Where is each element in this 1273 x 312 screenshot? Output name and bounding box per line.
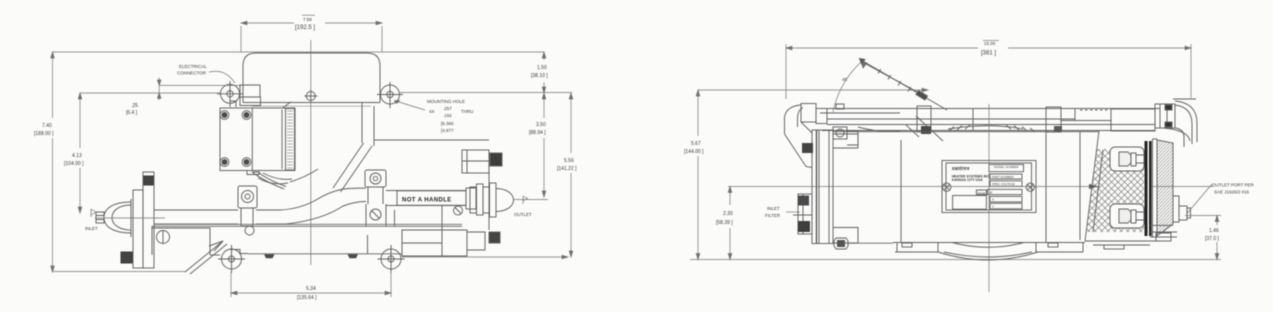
svg-text:.257: .257 — [443, 106, 452, 111]
svg-text:MOUNTING HOLE: MOUNTING HOLE — [427, 99, 465, 104]
tube clamp at handle — [917, 106, 973, 132]
svg-text:FILTER: FILTER — [765, 213, 781, 218]
svg-text:[58.39 ]: [58.39 ] — [716, 220, 733, 226]
diagonal flap — [185, 241, 227, 274]
elbow into bell — [1163, 128, 1190, 141]
clamp 2 — [365, 170, 395, 254]
left cap — [785, 104, 828, 168]
inlet flag — [91, 209, 96, 217]
base bracket — [893, 242, 1085, 260]
dim 1.46 — [1185, 216, 1221, 260]
base right — [1085, 241, 1150, 249]
inlet bolts — [121, 176, 153, 263]
svg-text:[37.0 ]: [37.0 ] — [1205, 236, 1220, 242]
body top curves — [833, 125, 1099, 132]
svg-text:NOT A HANDLE: NOT A HANDLE — [402, 198, 452, 204]
right bottom bracket — [1150, 225, 1177, 241]
dim total width — [786, 44, 1191, 99]
ref line mounting surface — [80, 92, 572, 95]
svg-text:45: 45 — [842, 77, 848, 82]
svg-text:.192: .192 — [443, 113, 452, 118]
lower tube band — [154, 188, 366, 224]
dim 2.30 — [728, 187, 732, 260]
left mount ear — [217, 81, 243, 107]
dim 4.13 — [78, 93, 82, 213]
svg-text:INLET: INLET — [767, 206, 780, 211]
svg-text:2.30: 2.30 — [723, 211, 733, 217]
feet — [218, 245, 405, 273]
svg-text:[4.877: [4.877 — [441, 128, 454, 133]
svg-text:MODEL NUMBER: MODEL NUMBER — [994, 165, 1019, 169]
dim 5.67 — [690, 88, 1221, 259]
sleeve with dashes — [1075, 109, 1155, 132]
angle arc — [833, 62, 867, 112]
inlet centerline — [95, 217, 165, 219]
svg-text:OUTLET PORT PER: OUTLET PORT PER — [1212, 183, 1255, 188]
nameplate — [942, 161, 1036, 213]
flange bolts — [1119, 152, 1144, 223]
svg-text:.25: .25 — [131, 103, 138, 109]
tube — [820, 104, 1160, 131]
svg-text:OUTLET: OUTLET — [514, 212, 532, 217]
svg-text:5.34: 5.34 — [306, 286, 316, 292]
bottom dim 5.34 — [231, 272, 391, 297]
not a handle bar — [386, 188, 476, 209]
svg-text:5.67: 5.67 — [691, 141, 701, 147]
centerlines — [728, 186, 1213, 188]
clamp 1 — [238, 186, 257, 235]
svg-text:KANSAS CITY USA: KANSAS CITY USA — [952, 178, 984, 182]
bell cone — [1157, 140, 1173, 236]
svg-text:[144.00 ]: [144.00 ] — [684, 149, 704, 155]
svg-text:[6.4 ]: [6.4 ] — [126, 110, 138, 116]
dim .25 offset — [157, 78, 161, 101]
body panel lines — [901, 132, 1080, 242]
svg-text:[141.22 ]: [141.22 ] — [557, 166, 577, 172]
svg-text:V: V — [992, 204, 994, 208]
dim overall height 7.40 — [51, 52, 186, 272]
svg-text:xantrex: xantrex — [952, 166, 970, 172]
funnel diagonals right of hood — [333, 103, 489, 192]
svg-text:INLET: INLET — [85, 226, 98, 231]
hood — [243, 53, 380, 106]
outlet flange steps — [1173, 196, 1191, 222]
svg-text:1.50: 1.50 — [537, 65, 547, 71]
svg-text:PART NUMBER: PART NUMBER — [992, 175, 1014, 179]
svg-text:CONNECTOR: CONNECTOR — [177, 71, 207, 76]
box screws — [222, 112, 250, 165]
outlet bolt — [442, 206, 463, 230]
svg-text:4.13: 4.13 — [72, 153, 82, 159]
bolt under bracket — [834, 238, 848, 249]
shelf line — [159, 84, 240, 86]
heavy gasket bars — [1145, 141, 1148, 236]
svg-text:A: A — [992, 198, 994, 202]
baseline right — [402, 255, 568, 259]
svg-text:[135.64 ]: [135.64 ] — [297, 295, 317, 301]
svg-text:[188.00 ]: [188.00 ] — [34, 131, 54, 137]
trapezoid housing — [1085, 131, 1160, 242]
svg-text:4X: 4X — [429, 109, 435, 114]
center target — [304, 90, 317, 103]
right mount ear — [377, 82, 403, 108]
centerline — [310, 40, 312, 265]
svg-text:15.00: 15.00 — [984, 41, 996, 46]
inlet assembly — [96, 172, 162, 268]
svg-text:7.40: 7.40 — [42, 123, 52, 129]
svg-text:[88.94 ]: [88.94 ] — [529, 130, 546, 136]
electrical box — [220, 101, 295, 189]
svg-text:THRU: THRU — [461, 109, 474, 114]
svg-text:[192.5 ]: [192.5 ] — [295, 25, 315, 31]
bolt pads — [1110, 147, 1144, 228]
svg-text:[6.366: [6.366 — [441, 121, 454, 126]
right dim column B — [569, 93, 573, 257]
flange plate — [1153, 139, 1158, 237]
svg-text:W: W — [990, 191, 993, 195]
svg-text:ELECTRICAL: ELECTRICAL — [179, 64, 207, 69]
svg-text:SAE J1926/2 #16: SAE J1926/2 #16 — [1214, 190, 1250, 195]
bell hatch — [1157, 140, 1173, 236]
svg-text:5.56: 5.56 — [564, 158, 574, 164]
elbow — [1173, 99, 1197, 147]
casting curves above tube — [258, 169, 318, 184]
svg-text:[104.00 ]: [104.00 ] — [64, 161, 84, 167]
electrical connector bracket — [240, 85, 261, 106]
svg-text:1.46: 1.46 — [1209, 228, 1219, 234]
nameplate bosses — [943, 183, 1035, 191]
body screw — [157, 231, 170, 245]
outlet flange plates — [470, 183, 514, 217]
svg-text:3.50: 3.50 — [536, 122, 546, 128]
svg-text:7.58: 7.58 — [303, 17, 312, 22]
inlet filter flange — [793, 194, 812, 234]
tube coupler — [1046, 107, 1111, 132]
right dim column A — [542, 52, 546, 197]
mounting plate — [812, 130, 858, 244]
dim top width line — [241, 21, 382, 52]
svg-text:[381 ]: [381 ] — [981, 51, 996, 57]
svg-text:Serial: Serial — [978, 191, 986, 195]
crosshatch housing section — [1086, 149, 1144, 232]
lower body — [152, 224, 500, 256]
outlet small box — [462, 150, 502, 230]
svg-text:[38.10 ]: [38.10 ] — [531, 73, 548, 79]
svg-text:SPEC VOLTAGE: SPEC VOLTAGE — [992, 182, 1015, 186]
handle phantom diagonal — [860, 59, 948, 142]
under tube bolt — [833, 127, 858, 145]
end fitting — [1155, 104, 1175, 128]
ref line top — [53, 51, 545, 53]
